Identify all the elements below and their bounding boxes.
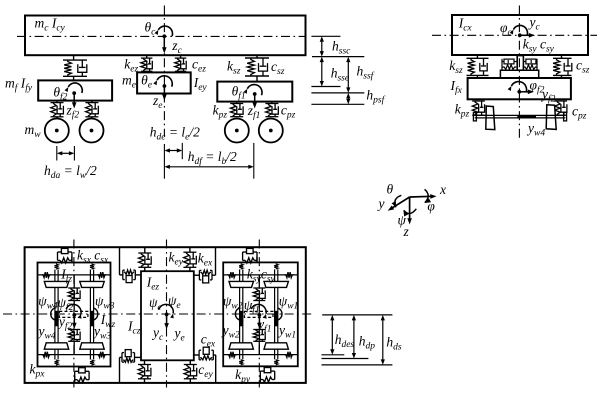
- svg-text:x: x: [439, 182, 446, 197]
- svg-text:y: y: [377, 196, 385, 211]
- svg-text:θ: θ: [387, 182, 394, 197]
